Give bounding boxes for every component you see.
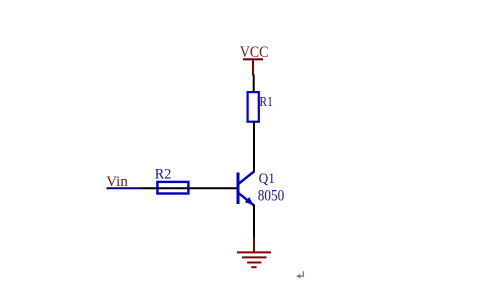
svg-text:R2: R2 (155, 167, 172, 183)
svg-text:R1: R1 (259, 95, 273, 110)
svg-text:8050: 8050 (258, 187, 285, 204)
svg-text:Q1: Q1 (259, 171, 275, 187)
